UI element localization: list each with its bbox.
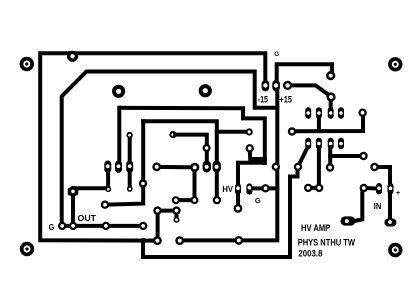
pad column 217 bottom bbox=[213, 196, 221, 204]
svg-text:HV AMP: HV AMP bbox=[301, 223, 330, 233]
pad IN left horizontal stadium bbox=[341, 216, 356, 225]
pad OUT 1 bbox=[58, 222, 66, 230]
wire OUT rail bbox=[62, 224, 143, 228]
wire pad157 bottom pair bbox=[158, 209, 177, 213]
op-amp U1 pad pin5 bbox=[305, 107, 311, 118]
pad IN mid bbox=[360, 184, 368, 192]
op-amp U1 pad pin8 bbox=[338, 107, 344, 118]
wire outline bottom step bbox=[143, 168, 298, 257]
pad OUT 2 bbox=[69, 222, 77, 230]
pad U1 pin2 b bbox=[315, 184, 323, 192]
svg-text:G: G bbox=[274, 51, 279, 58]
wire jog trace y108 bbox=[120, 108, 265, 163]
wire diagonal to U1 pin 5 bbox=[298, 144, 308, 167]
wire IN pad down left to stadium bbox=[355, 188, 364, 221]
pad rail right bbox=[358, 109, 366, 117]
pad 206 stadium bbox=[203, 161, 211, 173]
op-amp U1 pad pin3 bbox=[316, 138, 322, 149]
pad G top right bbox=[326, 71, 335, 80]
pad +15 via bbox=[326, 92, 335, 101]
wire board outline left/top/bottom (-15 net) bbox=[40, 53, 265, 240]
pad 157 mid bbox=[152, 163, 161, 172]
pad right of U2 bbox=[169, 131, 176, 138]
svg-text:OUT: OUT bbox=[78, 214, 97, 223]
pad G stadium bbox=[272, 80, 280, 91]
wire U2 pin3 down to pad bbox=[128, 167, 132, 189]
pad 176 bottom bbox=[172, 206, 180, 214]
pad TP right bbox=[199, 84, 212, 97]
wire HV column down bbox=[236, 163, 240, 209]
pad IN bottom horizontal stadium bbox=[384, 219, 396, 227]
wire pad175 to pad194 bbox=[176, 198, 195, 202]
mounting hole top-left bbox=[20, 57, 34, 71]
wire U2 pin top up bbox=[117, 108, 121, 166]
wire HV leg y163 bbox=[238, 161, 265, 165]
svg-text:HV: HV bbox=[222, 184, 233, 194]
mounting hole bottom-right bbox=[388, 243, 402, 257]
wire U2 pin1 down to pad bbox=[106, 167, 110, 190]
wire U1 pin3 down junction right bbox=[328, 144, 332, 168]
wire pad176 stub down bbox=[175, 211, 179, 220]
wire G pad2 up and right to pad bbox=[277, 64, 332, 85]
pad IN stadium R2b bbox=[388, 183, 394, 194]
pad TP left bbox=[112, 85, 125, 98]
pad IN plus top bbox=[370, 163, 378, 171]
wire pad149 leg bbox=[250, 149, 265, 159]
pad 194 bottom bbox=[191, 196, 199, 204]
hex pad bbox=[68, 186, 79, 198]
wire U1 pin7 down to rail bbox=[317, 113, 321, 131]
pad 249 bbox=[246, 144, 254, 152]
op-amp U1 pad pin6 bbox=[316, 107, 322, 118]
op-amp U1 pad pin1 bbox=[338, 138, 344, 149]
chip U2 stadium pad 2 bbox=[115, 161, 122, 173]
pad bottom rail 2 bbox=[234, 236, 243, 245]
wire U1 pin2 down to pads bbox=[308, 144, 319, 188]
pad 176 stub bbox=[174, 217, 180, 223]
wire pad173 to down bbox=[173, 135, 207, 167]
op-amp U1 pad pin4 bbox=[305, 138, 311, 149]
svg-text:IN: IN bbox=[374, 201, 382, 211]
pad outline net right bbox=[294, 163, 302, 171]
wire IN plus line bbox=[375, 167, 391, 222]
wire +15 pad down to U1 pin 8 bbox=[329, 97, 333, 113]
pad on outline end bbox=[153, 236, 162, 245]
mounting hole bottom-left bbox=[20, 242, 34, 256]
pad on G vertical bbox=[272, 163, 280, 171]
pad bottom rail 1 bbox=[175, 236, 184, 245]
pad column 217 top bbox=[213, 161, 221, 173]
pad below U2 pin1 bbox=[105, 186, 111, 192]
svg-text:2003.8: 2003.8 bbox=[298, 248, 323, 259]
svg-text:-15: -15 bbox=[258, 94, 268, 104]
op-amp U1 pad pin2 bbox=[328, 138, 334, 149]
pad above U2 pin3 bbox=[126, 132, 132, 138]
op-amp U1 pad pin7 bbox=[328, 107, 334, 118]
chip U2 stadium pad 1 bbox=[104, 161, 111, 173]
wire hex pad down bbox=[71, 192, 75, 226]
pad U1 pin2 a bbox=[304, 184, 312, 192]
wire junction to pad 363 bbox=[330, 154, 363, 158]
wire IN pad to stadium bbox=[364, 186, 379, 191]
pad below U2 pin3 bbox=[127, 186, 133, 192]
wire thick vertical x143 bbox=[105, 121, 143, 205]
mounting hole top-right bbox=[388, 57, 402, 71]
pad OUT 4 bbox=[139, 222, 147, 230]
svg-text:PHYS NTHU TW: PHYS NTHU TW bbox=[298, 237, 356, 247]
pad IN stadium R2a bbox=[376, 183, 382, 194]
svg-text:G: G bbox=[255, 196, 261, 205]
wire rail pad292 to 363 bbox=[292, 113, 363, 131]
pad HV branch bbox=[246, 128, 253, 135]
svg-text:+15: +15 bbox=[279, 94, 292, 104]
pad 194 mid bbox=[190, 163, 199, 172]
pad HV G stadium bbox=[246, 183, 252, 194]
wire G stub to HV stadium row bbox=[249, 186, 277, 190]
wire G long vertical to bottom rail bbox=[180, 86, 277, 240]
svg-text:G: G bbox=[49, 222, 55, 232]
pad -15 stadium bbox=[262, 80, 270, 91]
pad 175 bbox=[172, 196, 180, 204]
pad below U1 pin3 bbox=[326, 163, 334, 171]
wire HV top horizontal bbox=[143, 121, 217, 199]
pad 157 bottom bbox=[153, 206, 161, 214]
chip U2 stadium pad 3 bbox=[126, 161, 133, 173]
wire pad157 down to outline pad bbox=[156, 211, 160, 241]
pad end of x143 bbox=[101, 201, 109, 209]
pad rail left bbox=[288, 127, 296, 135]
wire hex pad to pad108 bbox=[74, 186, 108, 190]
pad OUT 3 bbox=[102, 222, 110, 230]
pad on x143 vertical bbox=[139, 179, 147, 187]
pad G of HV row bbox=[261, 184, 269, 192]
wire pad157 to pad194 bbox=[157, 165, 195, 170]
wire G chamfer top trace bbox=[62, 72, 278, 226]
pad +15 round bbox=[283, 81, 292, 90]
svg-text:+: + bbox=[396, 188, 401, 197]
pad HV stadium bbox=[235, 183, 241, 194]
wire pad194 down bbox=[193, 167, 197, 200]
pad on top outline bbox=[67, 51, 78, 62]
pad HV bottom bbox=[234, 204, 243, 213]
wire +15 to pad bbox=[288, 85, 331, 96]
wire pad73 up right trace bbox=[71, 188, 75, 191]
wire HV branch to pad bbox=[217, 130, 247, 134]
pad on 206 column bbox=[203, 144, 211, 152]
wire U2 pin3 up to pad bbox=[128, 135, 132, 166]
pad U1 pin3 net bbox=[359, 152, 367, 160]
